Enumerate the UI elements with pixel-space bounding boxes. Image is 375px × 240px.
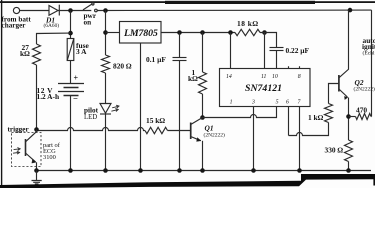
svg-text:3: 3 [251,100,255,106]
wire top rail [97,9,371,11]
svg-text:trigger: trigger [8,125,30,133]
page left border [1,0,2,188]
svg-text:(Echlin: (Echlin [363,50,375,57]
wire 1k B to Q2 base [329,84,339,104]
svg-text:6: 6 [286,100,289,106]
LED pilot [100,104,111,114]
wire LM7805 gnd pin [140,43,142,171]
svg-text:470: 470 [356,105,367,114]
junction Q2 collector rail [348,8,353,13]
phototransistor trigger [25,139,27,156]
wire 27k to trigger node [36,65,38,130]
svg-text:kΩ: kΩ [188,74,198,83]
svg-text:18 kΩ: 18 kΩ [237,19,259,28]
svg-text:10: 10 [272,74,278,80]
wire pin 3 to ground rail [253,107,255,171]
wire +5V rail [161,32,235,34]
svg-text:0.22 µF: 0.22 µF [286,46,310,55]
junction 1k top [200,30,205,35]
switch pwr on [83,4,92,10]
svg-text:330 Ω: 330 Ω [325,145,344,154]
transistor Q2 [338,75,340,92]
resistor 1k B [325,104,333,123]
fuse 3A [67,39,74,61]
svg-text:820 Ω: 820 Ω [113,62,132,71]
junction Q1 collector [200,115,205,120]
svg-text:charger: charger [2,21,27,29]
wire node A down [70,11,72,39]
wire trigger node to 15k with hops [37,128,146,131]
junction node B [103,8,108,13]
wire pin 6 to 1k B, hop over pin 7 [289,123,329,136]
wire diode to switch [58,10,91,12]
capacitor 0.1uF [179,33,181,58]
svg-text:−: − [73,94,78,104]
svg-text:kΩ: kΩ [20,49,30,58]
wire LED to ground rail [105,114,107,171]
wire node C left to 27k [37,33,71,44]
svg-text:(2N2222): (2N2222) [204,132,226,139]
svg-text:SN74121: SN74121 [245,83,282,94]
diode D1 [49,6,58,16]
svg-text:0.1 µF: 0.1 µF [146,55,166,64]
page top border [0,1,375,3]
wire right edge down [371,10,373,116]
wire fuse to battery [70,61,72,84]
light arrows [14,148,21,151]
wire 820 to LED [105,73,107,104]
svg-text:1 kΩ: 1 kΩ [308,113,324,122]
svg-text:1: 1 [230,100,233,106]
page bottom black bar [0,174,375,188]
resistor 18k [235,29,260,35]
wire pin 14 up [230,33,232,69]
resistor 330 [345,140,353,162]
resistor 820 [102,55,110,73]
svg-text:1.2 A-h: 1.2 A-h [37,92,60,101]
wire pin 11 up [264,33,266,69]
svg-text:11: 11 [261,74,266,80]
svg-text:3 A: 3 A [76,47,87,56]
wire emitter node to 470 [349,116,356,118]
dashed box ECG 3100 [12,133,42,167]
wire node B down [105,11,107,56]
svg-text:LED: LED [84,114,97,121]
junction pin 11 [262,30,267,35]
pin 8 stub [289,66,300,68]
junction LM7805 input [103,30,108,35]
svg-text:on: on [84,18,92,27]
LED arrows [112,105,119,108]
wire to LM7805 input [106,32,120,34]
svg-text:14: 14 [226,73,232,80]
svg-text:(6A60): (6A60) [44,22,60,29]
wire Q1 collector to pin 5, hop over pin 3 [203,107,277,118]
junction node C [68,31,73,36]
capacitor 0.22uF [270,47,284,49]
svg-text:LM7805: LM7805 [123,28,158,39]
svg-text:Q1: Q1 [205,123,214,132]
wire 15k to Q1 base [168,130,191,132]
junction pin 14 [228,30,233,35]
ground rail [37,170,372,172]
junction node A [68,8,73,13]
svg-text:(2N2222): (2N2222) [354,85,375,92]
resistor 27k [33,44,41,65]
wire 18k to 0.22uF [260,33,277,48]
junction Q2 emitter node [346,114,351,119]
wire pin 7 to ground rail [299,107,301,171]
transistor Q1 [190,123,192,140]
terminal from batt charger [13,7,19,13]
resistor 470 [356,114,372,120]
resistor 15k [145,127,168,133]
wire battery to ground rail [70,96,72,171]
battery 12V 1.2A-h [58,83,84,85]
resistor 1k A [202,33,204,73]
regulator U1 LM7805 [120,22,162,44]
trigger node [34,127,39,132]
wire terminal to diode [20,10,49,12]
junction 0.1uF [177,30,182,35]
svg-text:3100: 3100 [43,154,56,161]
IC U2 SN74121 [220,69,311,107]
svg-text:15 kΩ: 15 kΩ [146,116,165,125]
wire pin 6 down [288,107,290,136]
svg-text:7: 7 [298,100,302,106]
svg-text:+: + [74,73,79,82]
junction dots on ground rail [34,168,39,173]
svg-text:5: 5 [276,100,279,106]
ground symbol [36,171,38,181]
svg-text:8: 8 [298,74,301,80]
